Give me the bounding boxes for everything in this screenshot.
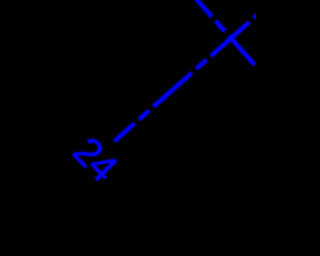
wire: dash-dot line B crossing line A — [178, 0, 255, 65]
wire: dash-dot line A with label 24 — [114, 13, 260, 142]
